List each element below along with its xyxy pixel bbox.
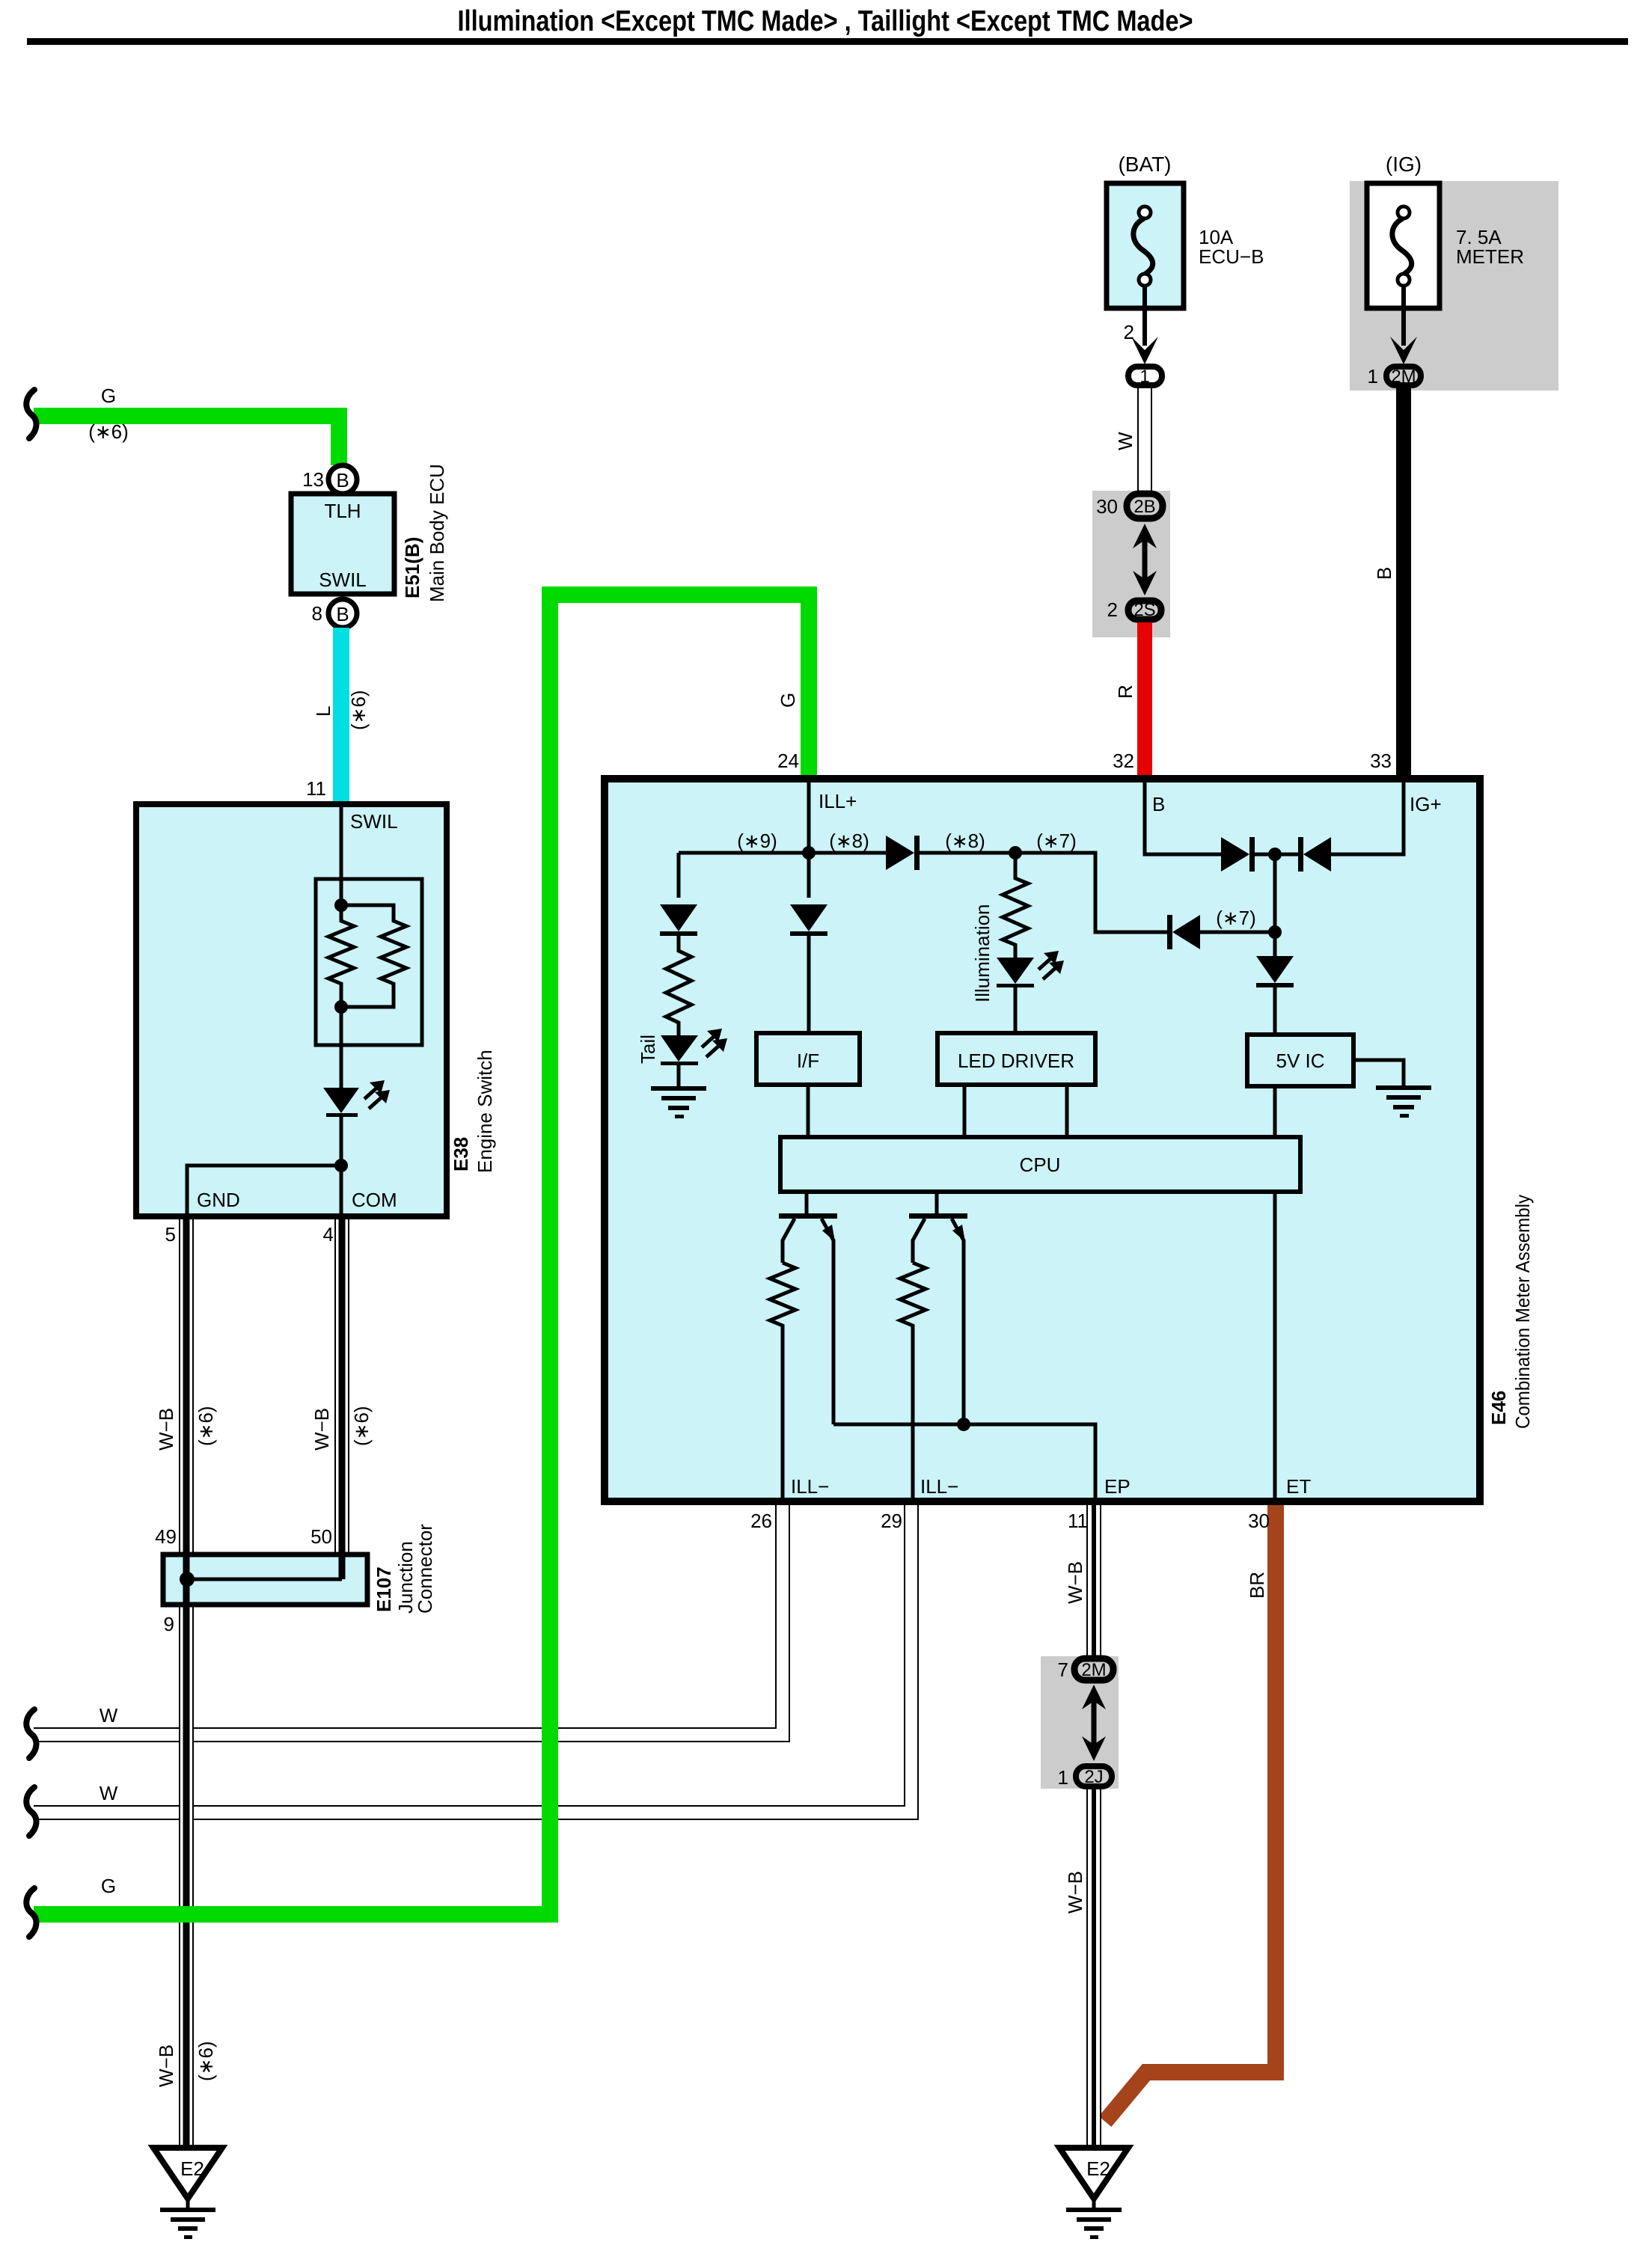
svg-text:W−B: W−B bbox=[155, 1408, 177, 1451]
wire W-B from E46 pin 11 EP to ground E2 right bbox=[1086, 1505, 1101, 2151]
ground E2 left bbox=[153, 2148, 222, 2239]
svg-text:G: G bbox=[101, 385, 116, 407]
wire ILL+ to I/F bbox=[807, 853, 811, 898]
resistor R1 (left) bbox=[328, 905, 354, 1007]
node dot top bbox=[334, 898, 348, 912]
resistor R4 (illumination) bbox=[1003, 853, 1028, 958]
wire W-B from E38 pin 5 to E107 pin 49 bbox=[179, 1219, 194, 1553]
wire G top left to E51 pin 13 bbox=[34, 416, 339, 465]
box LED DRIVER bbox=[937, 1033, 1095, 1085]
svg-text:1: 1 bbox=[1139, 367, 1149, 387]
wire node column bbox=[1273, 854, 1277, 956]
svg-text:8: 8 bbox=[312, 602, 322, 625]
junction connector E107 bbox=[163, 1552, 367, 1607]
svg-text:(∗6): (∗6) bbox=[88, 420, 129, 443]
svg-text:(∗7): (∗7) bbox=[1036, 830, 1077, 852]
connector oval 2B bbox=[1127, 494, 1163, 518]
break symbol on wire W 26 bbox=[26, 1709, 36, 1758]
diode D9 (I/F branch) bbox=[790, 904, 827, 1033]
svg-text:Combination Meter Assembly: Combination Meter Assembly bbox=[1511, 1195, 1534, 1429]
LED D1 (engine switch illumination) bbox=[323, 1080, 390, 1117]
svg-text:50: 50 bbox=[310, 1525, 332, 1548]
resistor R3 (tail) bbox=[666, 936, 691, 1035]
transistor Q1 bbox=[779, 1192, 837, 1424]
svg-text:1: 1 bbox=[1058, 1766, 1068, 1789]
svg-text:33: 33 bbox=[1370, 750, 1392, 772]
arrow into connector 1 bbox=[1131, 337, 1158, 364]
connector B pin 13 bbox=[328, 465, 357, 494]
svg-text:(IG): (IG) bbox=[1386, 153, 1422, 176]
ground (5V IC) bbox=[1353, 1060, 1431, 1118]
wire B pin line bbox=[1145, 782, 1221, 854]
svg-text:IG+: IG+ bbox=[1410, 793, 1442, 815]
svg-text:SWIL: SWIL bbox=[350, 810, 398, 833]
svg-text:CPU: CPU bbox=[1020, 1154, 1061, 1176]
wire IG+ pin line bbox=[1331, 782, 1404, 854]
resistor box E38 bbox=[316, 879, 422, 1045]
double arrow 2M-2J bbox=[1082, 1685, 1106, 1761]
wire GND branch bbox=[187, 1166, 341, 1213]
svg-text:2M: 2M bbox=[1391, 367, 1416, 387]
svg-text:26: 26 bbox=[750, 1510, 772, 1532]
wire W-B from E38 pin 4 to E107 pin 50 bbox=[334, 1219, 349, 1553]
junction dot COM/GND bbox=[334, 1159, 348, 1172]
svg-text:(∗6): (∗6) bbox=[195, 1406, 217, 1446]
svg-text:(∗8): (∗8) bbox=[829, 830, 869, 852]
svg-text:11: 11 bbox=[306, 777, 326, 800]
svg-text:24: 24 bbox=[777, 750, 799, 772]
wire I/F to CPU bbox=[807, 1085, 810, 1137]
diode D7 (tail branch) bbox=[660, 904, 697, 936]
wire COM branch bbox=[340, 1166, 343, 1213]
svg-text:5V IC: 5V IC bbox=[1276, 1050, 1324, 1072]
break symbol on wire G bottom bbox=[26, 1888, 36, 1937]
svg-text:EP: EP bbox=[1104, 1475, 1131, 1498]
svg-text:B: B bbox=[336, 469, 349, 491]
wire W from ILL- pin 26 to left break bbox=[34, 1505, 783, 1735]
diode D4 (B side) bbox=[1221, 837, 1255, 872]
svg-text:TLH: TLH bbox=[324, 500, 361, 522]
svg-text:7: 7 bbox=[1058, 1658, 1068, 1681]
svg-text:(BAT): (BAT) bbox=[1118, 153, 1171, 176]
svg-text:5: 5 bbox=[165, 1223, 176, 1246]
node dot (*7) bbox=[1009, 846, 1022, 860]
wire ET pin line bbox=[1273, 1192, 1277, 1501]
svg-text:W: W bbox=[1114, 432, 1136, 450]
ground (tail) bbox=[651, 1065, 706, 1118]
svg-text:(∗9): (∗9) bbox=[737, 830, 777, 852]
svg-text:B: B bbox=[1373, 567, 1395, 580]
wire L from E51 pin 8 to E38 pin 11 bbox=[333, 628, 349, 802]
wire emitter join to EP bbox=[833, 1424, 1095, 1501]
svg-text:METER: METER bbox=[1456, 245, 1524, 268]
box I/F bbox=[756, 1033, 860, 1085]
svg-text:B: B bbox=[1152, 793, 1165, 815]
svg-text:30: 30 bbox=[1096, 495, 1118, 518]
svg-text:E51(B): E51(B) bbox=[401, 537, 423, 598]
svg-text:(∗6): (∗6) bbox=[195, 2041, 217, 2081]
svg-text:11: 11 bbox=[1068, 1510, 1088, 1532]
connector B pin 8 bbox=[328, 599, 357, 628]
svg-text:B: B bbox=[336, 603, 349, 625]
diode D2 (*8) bbox=[886, 836, 920, 870]
svg-text:2: 2 bbox=[1107, 598, 1118, 621]
svg-text:(∗6): (∗6) bbox=[347, 690, 370, 730]
wire W-B from E107 pin 9 to ground E2 left bbox=[179, 1607, 194, 2151]
node dot right column upper bbox=[1268, 925, 1282, 939]
svg-text:2M: 2M bbox=[1081, 1660, 1106, 1680]
diode D6 (to 5V IC) bbox=[1256, 956, 1294, 1035]
svg-text:4: 4 bbox=[323, 1223, 334, 1246]
svg-text:2J: 2J bbox=[1084, 1767, 1103, 1787]
wire node row ILL+ bbox=[679, 853, 1169, 932]
node dot ILL+ bbox=[802, 846, 816, 860]
svg-text:L: L bbox=[312, 706, 334, 717]
title rule bbox=[27, 38, 1628, 45]
svg-text:49: 49 bbox=[155, 1525, 177, 1548]
svg-text:W−B: W−B bbox=[1064, 1561, 1086, 1604]
connector oval 2S bbox=[1128, 600, 1161, 620]
connector oval 2M (EP) bbox=[1074, 1658, 1113, 1680]
svg-text:W: W bbox=[100, 1704, 118, 1727]
svg-text:(∗6): (∗6) bbox=[350, 1406, 373, 1446]
svg-text:Tail: Tail bbox=[637, 1035, 659, 1064]
svg-text:ECU−B: ECU−B bbox=[1199, 245, 1264, 268]
svg-text:2S: 2S bbox=[1134, 600, 1155, 620]
connector oval 2M (IG) bbox=[1386, 367, 1421, 387]
svg-text:E38: E38 bbox=[450, 1137, 472, 1171]
svg-text:COM: COM bbox=[352, 1189, 397, 1211]
wire W fuse to 2B bbox=[1137, 388, 1152, 494]
splice panel 2B/2S bbox=[1092, 491, 1170, 637]
svg-text:2: 2 bbox=[1124, 321, 1134, 343]
svg-text:ILL−: ILL− bbox=[920, 1475, 958, 1498]
wire BR from E46 pin 30 ET to ground junction bbox=[1105, 1505, 1276, 2122]
svg-text:E46: E46 bbox=[1487, 1391, 1510, 1425]
box CPU bbox=[780, 1137, 1300, 1192]
svg-text:G: G bbox=[777, 693, 799, 708]
svg-text:2B: 2B bbox=[1134, 497, 1155, 517]
meter assembly E46 block bbox=[605, 779, 1480, 1501]
switch E38 Engine Switch bbox=[136, 804, 447, 1216]
resistor R2 (right branch) bbox=[341, 905, 406, 1007]
resistor R5 (ILL- 26) bbox=[770, 1263, 795, 1501]
wire ILL+ pin line bbox=[807, 782, 811, 853]
svg-text:32: 32 bbox=[1113, 750, 1134, 772]
svg-text:G: G bbox=[101, 1875, 116, 1897]
LED D8 Tail bbox=[661, 1029, 727, 1065]
node dot bottom bbox=[334, 1000, 348, 1014]
wire R from 2S to E46 pin 32 bbox=[1137, 622, 1152, 777]
svg-text:ILL+: ILL+ bbox=[819, 790, 857, 812]
wire to LED bbox=[340, 1007, 343, 1088]
transistor Q2 bbox=[909, 1192, 967, 1424]
node dot B/IG junction bbox=[1268, 848, 1282, 861]
svg-text:W−B: W−B bbox=[1064, 1871, 1086, 1914]
svg-text:I/F: I/F bbox=[797, 1050, 819, 1072]
ground E2 right bbox=[1059, 2148, 1128, 2239]
splice panel 2M/2J bbox=[1041, 1656, 1119, 1789]
wires LED DRIVER to CPU bbox=[964, 1085, 1067, 1137]
wire LED to LED DRIVER bbox=[1014, 987, 1018, 1033]
svg-text:W−B: W−B bbox=[155, 2045, 177, 2087]
svg-text:E107: E107 bbox=[373, 1566, 395, 1612]
svg-text:SWIL: SWIL bbox=[319, 569, 367, 591]
svg-text:E2: E2 bbox=[180, 2157, 204, 2180]
svg-text:29: 29 bbox=[881, 1510, 902, 1532]
svg-text:Illumination <Except TMC Made>: Illumination <Except TMC Made> , Taillig… bbox=[458, 5, 1193, 37]
arrow into connector 2M bbox=[1390, 337, 1417, 364]
svg-text:1: 1 bbox=[1368, 365, 1378, 388]
svg-text:LED DRIVER: LED DRIVER bbox=[958, 1050, 1074, 1072]
wire Tail branch bbox=[677, 853, 681, 898]
svg-text:BR: BR bbox=[1246, 1572, 1268, 1599]
connector oval 2J bbox=[1076, 1766, 1112, 1787]
svg-text:W−B: W−B bbox=[310, 1408, 333, 1451]
svg-text:(∗7): (∗7) bbox=[1216, 907, 1256, 929]
wire G long from left break to E46 pin 24 ILL+ bbox=[34, 595, 809, 1914]
diode D3 (*7) left-pointing bbox=[1167, 915, 1275, 949]
svg-text:GND: GND bbox=[197, 1189, 240, 1211]
resistor R6 (ILL- 29) bbox=[900, 1263, 926, 1501]
box 5V IC bbox=[1247, 1035, 1353, 1086]
wire B from 2M to E46 pin 33 bbox=[1396, 388, 1411, 777]
svg-text:ILL−: ILL− bbox=[791, 1475, 829, 1498]
wire W from ILL- pin 29 to left break bbox=[34, 1505, 911, 1813]
svg-text:Connector: Connector bbox=[414, 1524, 436, 1614]
diode D5 (IG side) left-pointing bbox=[1255, 837, 1331, 872]
svg-text:9: 9 bbox=[164, 1613, 174, 1635]
wire 5V IC to CPU bbox=[1273, 1086, 1277, 1137]
fuse panel gray (IG) bbox=[1350, 181, 1558, 390]
svg-text:30: 30 bbox=[1248, 1510, 1270, 1532]
svg-text:Main Body ECU: Main Body ECU bbox=[426, 464, 448, 602]
break symbol on wire W 29 bbox=[26, 1787, 36, 1836]
svg-text:W: W bbox=[100, 1782, 118, 1804]
node dot emitter join bbox=[957, 1418, 970, 1431]
wire LED to junction bbox=[340, 1117, 343, 1166]
ECU E51(B) Main Body ECU bbox=[291, 494, 394, 594]
LED D10 Illumination bbox=[997, 951, 1064, 987]
svg-text:Engine Switch: Engine Switch bbox=[474, 1050, 496, 1173]
svg-text:(∗8): (∗8) bbox=[945, 830, 985, 852]
svg-text:E2: E2 bbox=[1086, 2157, 1110, 2180]
svg-text:Illumination: Illumination bbox=[971, 904, 994, 1002]
svg-text:13: 13 bbox=[302, 468, 324, 491]
wire SWIL internal bbox=[340, 801, 343, 905]
fuse 10A ECU-B bbox=[1107, 183, 1184, 346]
svg-text:ET: ET bbox=[1286, 1475, 1311, 1498]
double arrow 2B-2S bbox=[1133, 524, 1157, 595]
connector oval 1 bbox=[1128, 367, 1162, 387]
svg-text:R: R bbox=[1114, 684, 1136, 699]
fuse 7.5A METER bbox=[1367, 183, 1440, 346]
break symbol on wire G top bbox=[26, 390, 36, 438]
